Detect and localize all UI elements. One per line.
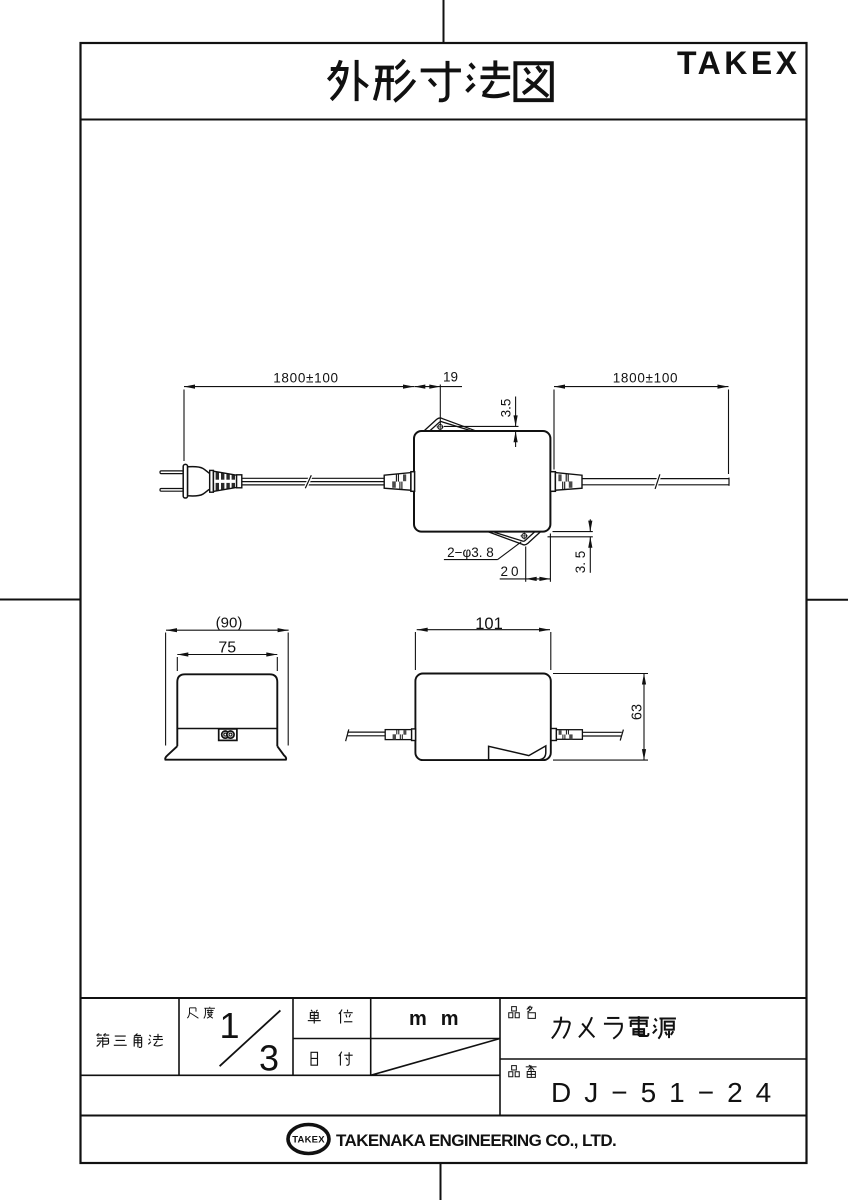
AC plug body bbox=[188, 467, 210, 496]
footer TAKEX oval logo bbox=[288, 1125, 329, 1154]
dim 19: extension line to tab bbox=[439, 385, 441, 426]
svg-text:mm: mm bbox=[409, 1008, 473, 1030]
drawing frame bbox=[81, 43, 807, 1163]
dim 3.5 top: text (rotated) bbox=[499, 399, 514, 418]
svg-text:1: 1 bbox=[219, 1005, 239, 1046]
dim 101: dimension line bbox=[417, 629, 550, 631]
front view: AC inlet bbox=[219, 729, 237, 741]
dim 3.5 top: tab edge extension line bbox=[444, 425, 519, 427]
side view: left bushing collar bbox=[412, 729, 416, 741]
left cells bottom line bbox=[81, 1074, 501, 1076]
mounting tab top-left with phi3.8 hole bbox=[424, 418, 476, 432]
product name: camera dengen (camera power supply) bbox=[552, 1017, 570, 1039]
AC plug boot end ring bbox=[237, 475, 242, 488]
side view: right cord break mark bbox=[620, 730, 623, 741]
dim 20: extension lines bbox=[525, 547, 527, 582]
registration tick bottom bbox=[440, 1163, 442, 1200]
dim 101: extension lines bbox=[414, 632, 416, 670]
mounting tab bottom-right with phi3.8 hole (rotated copy) bbox=[489, 531, 541, 545]
dim 63: extension lines bbox=[553, 673, 648, 675]
dim 75: extension lines bbox=[176, 657, 178, 671]
label hizuke (date) bbox=[311, 1052, 317, 1065]
AC plug face plate bbox=[183, 464, 187, 498]
front view: case seam line bbox=[177, 728, 277, 730]
cord bushing right (grommet) bbox=[555, 473, 582, 491]
side view: left bushing bbox=[385, 730, 411, 740]
DC cord end bbox=[728, 478, 730, 486]
svg-text:TAKENAKA ENGINEERING CO., LTD.: TAKENAKA ENGINEERING CO., LTD. bbox=[336, 1131, 616, 1150]
title char bbox=[328, 60, 367, 101]
DC cord break mark bbox=[655, 474, 660, 489]
dim 19: dimension line with tail bbox=[414, 386, 462, 388]
side view: right bushing bbox=[556, 730, 582, 740]
cord bushing left (grommet) bbox=[384, 473, 411, 491]
svg-text:63: 63 bbox=[629, 704, 645, 720]
dim 3.5 bottom: dimension line and arrows bbox=[589, 519, 591, 531]
svg-text:DJ−51−24: DJ−51−24 bbox=[551, 1077, 784, 1108]
title block v-line 4 (hinmei column) bbox=[499, 998, 501, 1116]
svg-text:1800±100: 1800±100 bbox=[273, 371, 339, 386]
side view: mounting tab profile bbox=[489, 746, 546, 760]
dim 63: text (rotated) bbox=[629, 704, 645, 720]
svg-text:TAKEX: TAKEX bbox=[292, 1135, 325, 1146]
svg-text:19: 19 bbox=[443, 370, 458, 385]
front view: case upper shell bbox=[177, 674, 277, 728]
label hinmei (product name) bbox=[509, 1007, 519, 1018]
label shakudo (scale) bbox=[187, 1008, 198, 1018]
leader 2-phi3.8 bbox=[444, 559, 498, 561]
label tan-i (unit) bbox=[308, 1010, 321, 1024]
title block v-line 1 bbox=[178, 998, 180, 1075]
AC plug blades bbox=[160, 471, 183, 474]
dim 3.5 top: dimension line and arrows bbox=[515, 397, 517, 427]
title block top line bbox=[81, 997, 807, 999]
dim 1800±100 left: extension line at plug bbox=[183, 390, 185, 462]
cord bushing right collar bbox=[550, 472, 555, 492]
full width row line above footer bbox=[81, 1115, 807, 1117]
dim 3.5 bottom: extension lines bbox=[553, 531, 593, 533]
AC cord (3-line flat cable) bbox=[242, 477, 384, 479]
DC cord (2-line) bbox=[582, 478, 729, 480]
dim 1800±100 right: dimension line bbox=[554, 386, 729, 388]
svg-text:1800±100: 1800±100 bbox=[613, 371, 679, 386]
dim (90): extension lines bbox=[165, 633, 167, 746]
hinmei/hinban divider bbox=[500, 1058, 807, 1060]
title block v-line 2 bbox=[292, 998, 294, 1075]
cord bushing left collar bbox=[411, 472, 415, 492]
dim 63: dimension line bbox=[643, 674, 645, 761]
header separator line bbox=[81, 119, 807, 121]
title char bbox=[467, 60, 511, 96]
svg-text:(90): (90) bbox=[216, 614, 243, 631]
side view: adapter body bbox=[415, 674, 550, 761]
front view: base band sides bbox=[176, 729, 178, 747]
svg-text:20: 20 bbox=[500, 564, 521, 579]
AC cord break mark bbox=[305, 475, 311, 488]
tanni/hizuke divider bbox=[293, 1038, 500, 1040]
front view: base flange bbox=[165, 746, 286, 760]
date cell diagonal bbox=[371, 1039, 500, 1076]
AC plug strain-relief boot with ribs bbox=[213, 471, 236, 491]
side view: left cord bbox=[347, 731, 385, 733]
side view: right bushing collar bbox=[551, 729, 556, 741]
title block v-line 3 bbox=[370, 998, 372, 1075]
AC plug boot flange bbox=[210, 470, 214, 492]
dim 75: dimension line bbox=[177, 654, 277, 656]
label dai-san-kaku-hou (third angle projection) bbox=[96, 1034, 109, 1048]
title char bbox=[375, 60, 415, 101]
svg-text:TAKEX: TAKEX bbox=[677, 45, 801, 81]
svg-text:2−φ3. 8: 2−φ3. 8 bbox=[447, 545, 494, 560]
dim 1800±100 right: extension lines bbox=[553, 390, 555, 470]
title char bbox=[421, 61, 461, 100]
svg-text:3. 5: 3. 5 bbox=[573, 551, 588, 574]
side view: left cord break mark bbox=[346, 729, 349, 741]
registration tick top bbox=[443, 0, 445, 43]
svg-text:3: 3 bbox=[259, 1038, 279, 1079]
title char bbox=[515, 63, 551, 100]
registration tick left bbox=[0, 599, 81, 601]
registration tick right bbox=[807, 599, 848, 601]
svg-text:3.5: 3.5 bbox=[499, 399, 514, 418]
label hinban (part no.) bbox=[509, 1066, 519, 1077]
dim (90): dimension line bbox=[166, 629, 289, 631]
dim 1800±100 left: dimension line bbox=[184, 386, 414, 388]
dim 20: dimension line bbox=[500, 578, 551, 580]
adapter body (top view) bbox=[414, 431, 550, 532]
dim 3.5 bottom: text (rotated) bbox=[573, 551, 588, 574]
side view: right cord bbox=[582, 731, 621, 733]
